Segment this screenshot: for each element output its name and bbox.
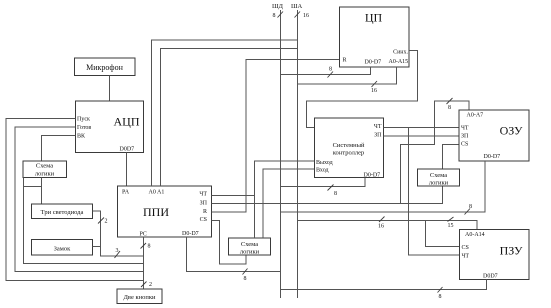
- svg-text:8: 8: [273, 13, 276, 19]
- svg-text:A0-A14: A0-A14: [465, 232, 485, 238]
- svg-text:Замок: Замок: [54, 246, 72, 253]
- svg-text:контроллер: контроллер: [333, 150, 365, 157]
- svg-text:АЦП: АЦП: [114, 115, 140, 129]
- svg-text:PA: PA: [122, 190, 130, 196]
- wire ППИ D0-D7 to ШД: [187, 237, 281, 282]
- svg-text:ЦП: ЦП: [365, 11, 383, 25]
- svg-text:ППИ: ППИ: [143, 205, 169, 219]
- svg-text:Пуск: Пуск: [77, 117, 90, 123]
- svg-text:16: 16: [303, 13, 309, 19]
- svg-text:ЗП: ЗП: [374, 133, 382, 139]
- wire ЦП A0-A15 to ША: [298, 67, 397, 94]
- svg-text:ЧТ: ЧТ: [462, 254, 470, 260]
- wire A1: ША to ППИ: [161, 49, 298, 187]
- svg-text:D0-D7: D0-D7: [365, 60, 382, 66]
- wire ОЗУ D0-D7 to ШД: [281, 161, 486, 215]
- svg-text:A0-A7: A0-A7: [467, 113, 484, 119]
- svg-text:D0D7: D0D7: [120, 147, 135, 153]
- wire Синх: ЦП to СК left: [307, 51, 418, 128]
- svg-text:8: 8: [334, 191, 337, 197]
- svg-text:D0D7: D0D7: [483, 274, 498, 280]
- svg-text:16: 16: [371, 88, 377, 94]
- wire ППИ ЧТ to Выход line: [212, 195, 255, 197]
- block АЦП: [76, 101, 144, 153]
- wire ЗП: ППИ to Схема логики (right) bottom: [212, 186, 443, 204]
- svg-text:ШД: ШД: [272, 3, 284, 10]
- block ЦП: [340, 7, 410, 67]
- block Две кнопки: [117, 289, 162, 304]
- wire ППИ PC hub down to Две кнопки: [141, 237, 153, 289]
- wire tap to ОЗУ A0-A7 top: [401, 98, 470, 204]
- wire ППИ CS to Схема логики (middle) bottom: [212, 221, 247, 265]
- svg-text:A0 A1: A0 A1: [149, 190, 165, 196]
- svg-text:2: 2: [149, 282, 152, 288]
- svg-text:Схема: Схема: [241, 241, 258, 248]
- svg-text:Схема: Схема: [36, 163, 53, 170]
- block Схема логики (right): [418, 169, 460, 187]
- svg-text:логики: логики: [35, 171, 55, 178]
- wire ПЗУ D0D7 to ШД: [281, 280, 487, 301]
- svg-text:8: 8: [329, 67, 332, 73]
- svg-text:CS: CS: [462, 245, 469, 251]
- svg-text:ЗП: ЗП: [200, 201, 208, 207]
- svg-text:A0-A15: A0-A15: [389, 59, 409, 65]
- block Схема логики (left): [23, 161, 67, 178]
- svg-text:Две кнопки: Две кнопки: [124, 294, 156, 301]
- svg-text:Микрофон: Микрофон: [86, 63, 123, 72]
- svg-text:ПЗУ: ПЗУ: [500, 244, 523, 258]
- svg-text:3: 3: [116, 248, 119, 254]
- wire АЦП D0D7 to ППИ PA: [126, 153, 128, 187]
- wire ЦП D0-D7 to ШД: [281, 67, 371, 78]
- wire Готов: АЦП left around to hub: [15, 127, 144, 272]
- wire A0: ША to ППИ: [152, 40, 298, 186]
- block Замок: [32, 240, 93, 256]
- svg-text:логики: логики: [429, 180, 449, 187]
- block ПЗУ: [460, 230, 530, 280]
- wire R: ЦП to ППИ: [212, 60, 340, 213]
- svg-text:ША: ША: [291, 3, 303, 10]
- svg-text:Схема: Схема: [430, 172, 447, 179]
- svg-text:Вход: Вход: [316, 167, 329, 173]
- svg-text:8: 8: [439, 294, 442, 300]
- wire ВК: АЦП to Схема логики (left) top: [42, 136, 76, 162]
- wire ЗП: СК to ОЗУ: [384, 135, 460, 137]
- wire rail from Схема логики (left) corner down to hub: [24, 178, 144, 264]
- svg-text:CS: CS: [200, 217, 207, 223]
- bus ШД (data bus vertical): [272, 3, 284, 298]
- wire Замок to hub: [93, 247, 121, 259]
- svg-text:ЗП: ЗП: [461, 134, 469, 140]
- block Системный контроллер: [315, 118, 384, 178]
- svg-text:ОЗУ: ОЗУ: [500, 124, 523, 138]
- wire Микрофон to АЦП: [109, 76, 111, 102]
- svg-text:16: 16: [378, 224, 384, 230]
- wire Пуск: АЦП left around to hub: [6, 119, 144, 281]
- wire ЧТ tap down to ПЗУ: [409, 128, 460, 256]
- svg-text:ЧТ: ЧТ: [461, 125, 469, 131]
- block Схема логики (middle): [229, 238, 271, 256]
- svg-text:Синх.: Синх.: [393, 49, 408, 55]
- wire Схема логики (left) bottom to Три светодиода top: [41, 178, 43, 205]
- block Три светодиода: [32, 204, 93, 219]
- svg-text:D0-D7: D0-D7: [364, 172, 381, 178]
- wire Вход: СК to Схема логики (middle): [263, 169, 315, 238]
- block Микрофон: [75, 58, 136, 76]
- wire ОЗУ CS to Схема логики (right) top: [443, 145, 460, 170]
- svg-text:PC: PC: [140, 231, 147, 237]
- svg-text:ЧТ: ЧТ: [199, 192, 207, 198]
- wire Три светодиода to hub: [93, 211, 144, 256]
- bus ША (address bus vertical): [291, 3, 309, 298]
- wire Выход: СК to Схема логики (middle): [255, 161, 315, 238]
- svg-text:8: 8: [244, 276, 247, 282]
- wire СК D0-D7 to ШД: [281, 178, 366, 198]
- svg-text:Три светодиода: Три светодиода: [41, 209, 84, 216]
- svg-text:Готов: Готов: [77, 125, 91, 131]
- svg-text:ВК: ВК: [77, 134, 86, 140]
- svg-text:D0-D7: D0-D7: [182, 231, 199, 237]
- svg-text:2: 2: [105, 219, 108, 225]
- wire ЧТ: СК to ОЗУ: [384, 127, 460, 129]
- wire A0-A14: ША to ПЗУ: [298, 217, 478, 230]
- wire tap to ПЗУ CS: [426, 221, 460, 247]
- svg-text:15: 15: [448, 223, 454, 229]
- svg-text:CS: CS: [461, 141, 468, 147]
- svg-text:D0-D7: D0-D7: [484, 154, 501, 160]
- svg-text:R: R: [203, 209, 207, 215]
- svg-text:R: R: [343, 57, 347, 63]
- block ППИ: [118, 186, 212, 237]
- svg-text:логики: логики: [240, 249, 260, 256]
- svg-text:8: 8: [148, 244, 151, 250]
- svg-text:Системный: Системный: [333, 142, 365, 149]
- block ОЗУ: [459, 110, 529, 161]
- svg-text:8: 8: [448, 105, 451, 111]
- svg-text:ЧТ: ЧТ: [374, 124, 382, 130]
- svg-text:Выход: Выход: [316, 160, 333, 166]
- svg-text:8: 8: [469, 204, 472, 210]
